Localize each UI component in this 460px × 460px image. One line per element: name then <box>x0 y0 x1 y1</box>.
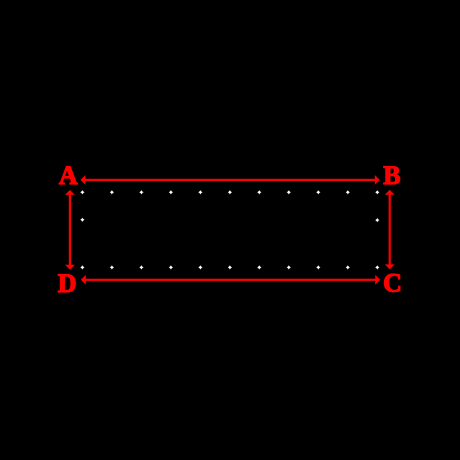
svg-text:D: D <box>58 269 77 298</box>
svg-text:B: B <box>383 161 400 190</box>
svg-text:A: A <box>59 161 78 190</box>
side BC double arrow (right) <box>385 190 395 270</box>
svg-text:C: C <box>383 269 402 298</box>
dot right edge <box>375 218 379 222</box>
dot left edge <box>80 218 84 222</box>
side AB double arrow (top) <box>80 175 379 185</box>
dot row bottom edge <box>80 265 379 269</box>
side DC double arrow (bottom) <box>81 275 380 285</box>
dot row top edge <box>80 190 379 194</box>
side AD double arrow (left) <box>65 190 75 270</box>
